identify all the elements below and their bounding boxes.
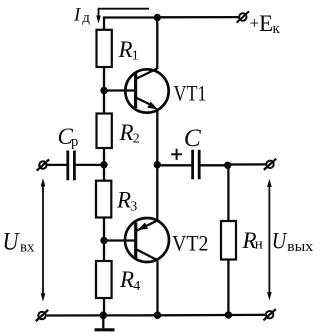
svg-text:VT1: VT1 [174, 81, 207, 106]
label plus polarity [171, 149, 182, 160]
svg-text:вх: вх [20, 239, 35, 255]
label R4 [119, 267, 140, 294]
svg-text:R: R [116, 187, 131, 212]
wire node B to Cp right plate [76, 164, 105, 166]
label +Ek [250, 11, 281, 37]
wire top rail from node to +Ek terminal [157, 16, 238, 18]
wire node R down to Rn [227, 165, 229, 221]
wire R4 bottom to bottom rail node [103, 298, 105, 315]
label Uvyx [272, 229, 314, 255]
wire bottom rail [47, 314, 266, 317]
capacitor Cp [68, 151, 75, 181]
svg-text:вых: вых [287, 239, 314, 255]
ground [95, 315, 115, 330]
wire node R to output terminal [228, 163, 266, 165]
svg-text:R: R [118, 37, 133, 62]
arrow Uvyx double arrow [267, 179, 272, 301]
svg-text:2: 2 [133, 132, 140, 147]
svg-text:E: E [259, 11, 273, 36]
wire VT2 emitter up to mid node [156, 165, 158, 221]
current arrow Id [96, 9, 149, 24]
node A [100, 87, 107, 94]
node bottom rail at R4 [100, 312, 108, 320]
node top rail junction [154, 14, 161, 21]
terminal +Ek [237, 11, 249, 22]
wire C right plate to node R [201, 164, 228, 166]
wire Rn bottom to rail [227, 260, 229, 316]
svg-text:д: д [82, 10, 90, 26]
node B [100, 161, 107, 168]
wire node C to VT2 base [104, 239, 136, 241]
wire VT1 emitter down to mid node [156, 109, 158, 165]
resistor R2 [97, 114, 112, 149]
terminal input bottom [36, 310, 48, 321]
svg-text:+: + [250, 14, 260, 33]
terminal input top [37, 159, 49, 170]
wire R1 bottom to node A [103, 67, 105, 91]
label Id [73, 4, 90, 26]
label R2 [119, 120, 140, 147]
wire node C to R4 [103, 241, 105, 262]
svg-text:R: R [119, 120, 134, 145]
capacitor C [193, 150, 200, 180]
wire top rail from R1 bend to VT1 collector node [104, 18, 157, 31]
wire mid node to C left plate [157, 164, 191, 166]
wire VT2 collector down to bottom rail [156, 260, 158, 315]
svg-text:н: н [255, 237, 263, 253]
label Uvx [3, 228, 35, 255]
wire R2 bottom to node B [103, 148, 105, 165]
svg-text:1: 1 [132, 48, 139, 63]
svg-text:3: 3 [130, 199, 137, 214]
transistor VT2 [125, 218, 169, 262]
wire VT1 collector up to rail [156, 18, 158, 70]
node bottom rail at VT2 [154, 311, 162, 319]
wire node A to VT1 base [104, 89, 136, 91]
svg-text:U: U [3, 228, 21, 255]
svg-text:4: 4 [133, 279, 140, 294]
terminal output top [264, 159, 276, 170]
svg-text:U: U [272, 229, 288, 255]
node C [100, 237, 107, 244]
label Cp [58, 124, 79, 150]
transistor VT1 [125, 69, 168, 113]
svg-text:VT2: VT2 [172, 231, 209, 256]
wire R3 bottom to node C [103, 218, 105, 241]
terminal output bottom [263, 309, 275, 320]
resistor Rn [221, 221, 236, 260]
label R1 [118, 37, 139, 64]
label R3 [116, 187, 137, 214]
svg-text:р: р [71, 134, 78, 150]
svg-text:C: C [184, 123, 202, 152]
svg-text:R: R [119, 267, 134, 292]
wire Cp left plate to input terminal [47, 164, 66, 166]
resistor R3 [96, 181, 111, 218]
wire node A to R2 [103, 91, 105, 114]
node R [224, 162, 231, 169]
node bottom rail at Rn [225, 311, 233, 319]
resistor R4 [96, 261, 112, 298]
resistor R1 [97, 30, 112, 67]
node mid [154, 161, 161, 168]
arrow Uvx double arrow [41, 178, 46, 302]
wire node B to R3 [103, 165, 105, 181]
svg-text:к: к [273, 21, 281, 37]
label Rn [242, 228, 263, 253]
